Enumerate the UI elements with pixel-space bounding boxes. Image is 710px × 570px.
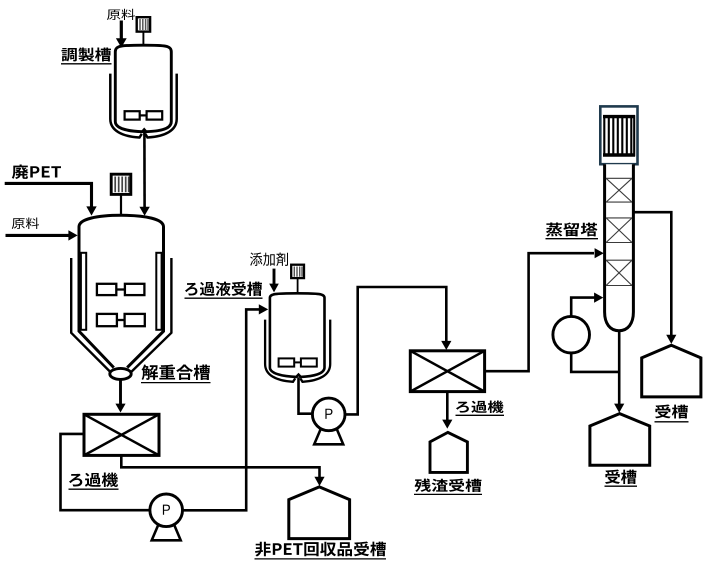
- label 非PET回収品受槽: [255, 542, 387, 559]
- packing section 1 蒸留塔: [606, 178, 632, 202]
- agitator shaft of 解重合槽: [120, 194, 122, 322]
- wire ろ過液受槽 outlet to pump P2: [299, 377, 313, 414]
- motor M2 on 解重合槽: [111, 174, 131, 194]
- label 残渣受槽: [414, 479, 482, 495]
- wire F1 left outlet to pump P1: [61, 434, 151, 510]
- wire 調製槽 outlet down to 解重合槽: [139, 132, 149, 216]
- label ろ過液受槽: [185, 282, 263, 299]
- arrow 原料 into 調製槽: [116, 21, 127, 48]
- jacket line 解重合槽 right: [131, 258, 172, 373]
- wire column overhead to 受槽 (right): [633, 212, 676, 344]
- wire F2 bottom outlet to 残渣受槽: [442, 392, 452, 429]
- pump P1: [150, 494, 183, 540]
- label 解重合槽: [141, 365, 211, 383]
- jacket of 調製槽 (left half): [110, 74, 142, 138]
- bottom outlet ellipse 解重合槽: [110, 368, 131, 379]
- jacket of 調製槽 (right half): [145, 74, 177, 138]
- baffle right 解重合槽: [156, 253, 161, 330]
- wire 解重合槽 outlet to ろ過機1: [115, 380, 125, 413]
- wire column bottoms loop through reboiler: [571, 353, 619, 372]
- wire 廃PET feed into 解重合槽: [5, 183, 97, 215]
- column body 蒸留塔: [605, 164, 634, 331]
- vessel body 解重合槽 (dome, walls, cone): [79, 215, 164, 367]
- agitator shaft of 調製槽: [142, 32, 144, 119]
- hopper 非PET回収品受槽: [289, 487, 350, 539]
- label ろ過機 (2): [456, 401, 505, 416]
- wire F1 bottom outlet to 非PET回収品受槽: [121, 455, 324, 486]
- label 蒸留塔: [546, 223, 599, 239]
- impeller row 1 解重合槽: [97, 284, 144, 295]
- agitator shaft of ろ過液受槽: [297, 278, 299, 366]
- condenser on 蒸留塔 (navy box with striped core): [600, 106, 637, 164]
- label 受槽 (right): [655, 405, 689, 422]
- wire column bottom outlet to 受槽 (bottom): [614, 331, 624, 413]
- wire pump P1 to ろ過液受槽: [183, 304, 269, 510]
- filter F1 ろ過機: [84, 414, 159, 455]
- pump P2: [312, 398, 345, 444]
- wire reboiler return to column: [571, 293, 603, 317]
- packing section 2 蒸留塔: [606, 218, 632, 243]
- arrow 添加剤 into ろ過液受槽: [269, 269, 279, 293]
- vessel body ろ過液受槽: [270, 293, 325, 377]
- wire F2 right outlet to 蒸留塔 feed: [485, 248, 604, 371]
- jacket ろ過液受槽 left half: [265, 320, 295, 382]
- jacket ろ過液受槽 right half: [300, 320, 330, 382]
- wire pump P2 to ろ過機2: [345, 287, 451, 414]
- jacket line 解重合槽 left: [71, 258, 111, 373]
- vessel body 調製槽: [115, 45, 171, 132]
- baffle left 解重合槽: [81, 253, 86, 330]
- label ろ過機 (1): [69, 473, 119, 490]
- label 調製槽: [61, 48, 112, 64]
- impeller paddles 調製槽: [125, 111, 163, 119]
- motor M1 on 調製槽: [137, 17, 150, 31]
- motor M3 on ろ過液受槽: [291, 265, 304, 278]
- impeller paddles ろ過液受槽: [279, 358, 317, 366]
- label 受槽 (bottom): [605, 470, 638, 487]
- wire 原料 feed into 解重合槽: [6, 230, 78, 240]
- hopper 残渣受槽: [430, 432, 467, 472]
- label 廃PET: [12, 165, 61, 180]
- impeller row 2 解重合槽: [97, 314, 145, 326]
- reboiler circle X1: [553, 316, 590, 353]
- filter F2 ろ過機: [410, 351, 484, 392]
- hopper 受槽 (bottom): [590, 414, 650, 466]
- packing section 3 蒸留塔: [606, 260, 632, 285]
- label 原料 (left feed): [12, 218, 39, 230]
- label 添加剤: [250, 253, 288, 267]
- hopper 受槽 (right): [642, 345, 701, 397]
- label 原料 (top feed): [107, 9, 135, 20]
